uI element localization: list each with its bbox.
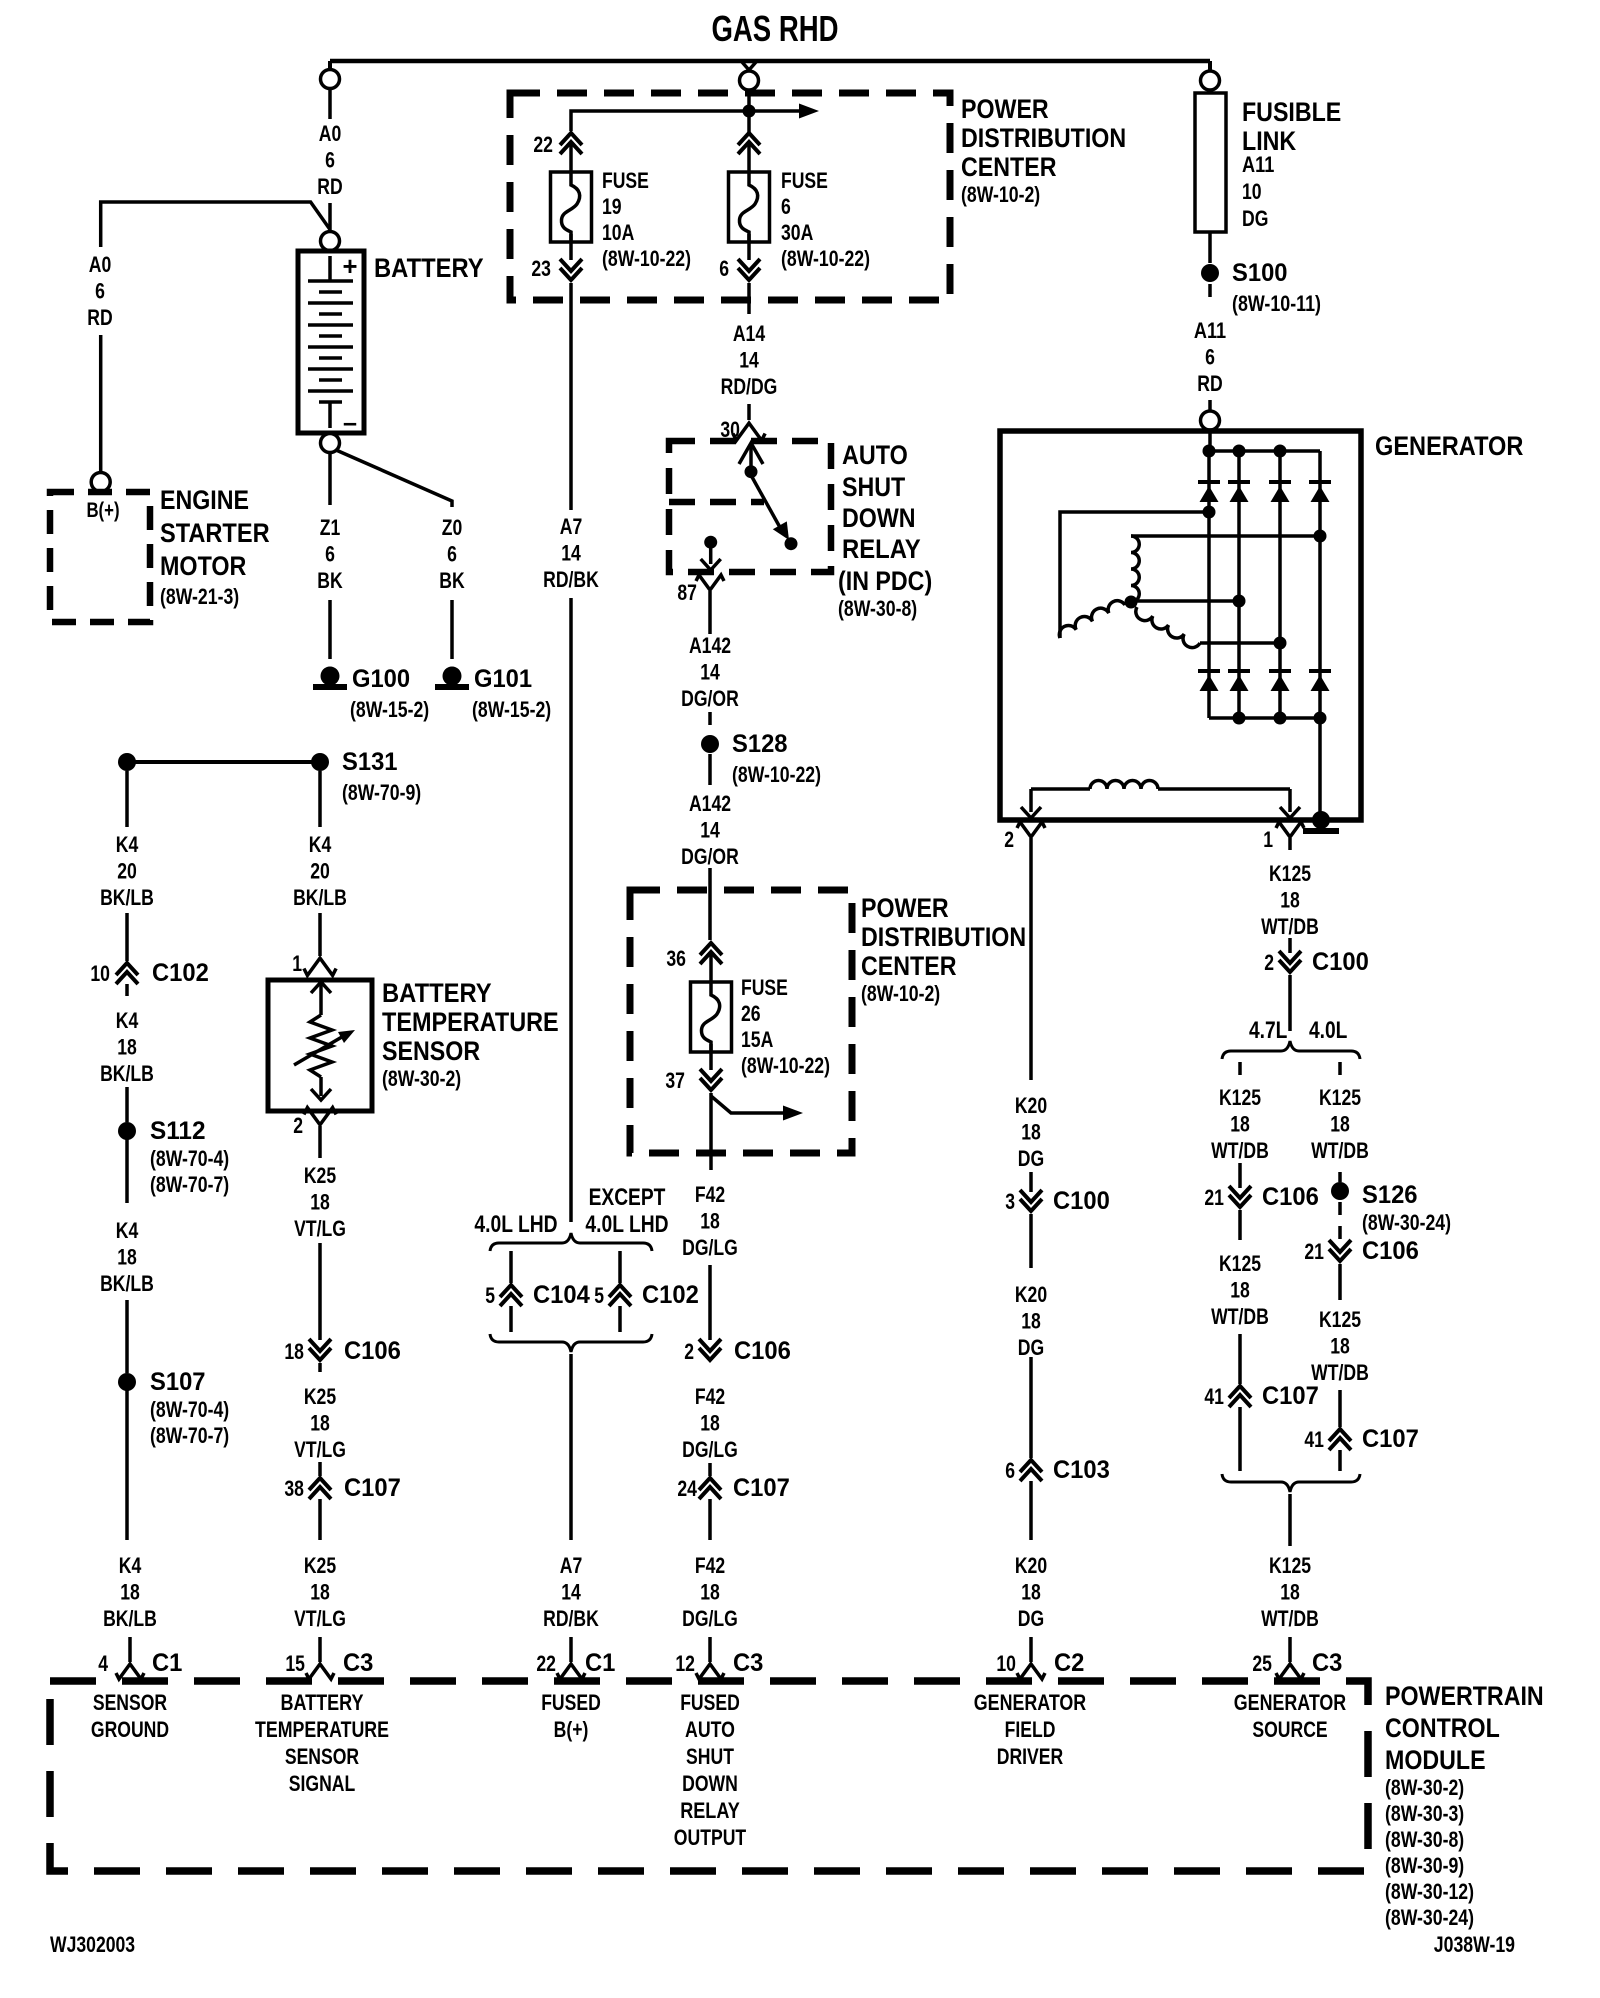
svg-text:BK/LB: BK/LB: [100, 1061, 154, 1086]
svg-text:DG/LG: DG/LG: [682, 1437, 738, 1462]
svg-text:4: 4: [98, 1651, 108, 1676]
svg-text:C106: C106: [344, 1337, 401, 1365]
svg-text:10: 10: [90, 961, 110, 986]
node bottom rail c3: [1274, 712, 1287, 725]
svg-text:C107: C107: [1362, 1425, 1419, 1453]
wire out of fuse 6: [747, 234, 751, 260]
svg-text:ENGINE: ENGINE: [160, 485, 249, 515]
sensor internal arrow bottom: [319, 1077, 323, 1096]
svg-text:18: 18: [1021, 1580, 1041, 1605]
connector pin 22 C1 fork at PCM: [557, 1664, 585, 1679]
svg-text:K125: K125: [1219, 1251, 1261, 1276]
svg-text:10: 10: [1242, 179, 1262, 204]
svg-text:5: 5: [594, 1283, 604, 1308]
node battery positive terminal: [321, 232, 340, 251]
svg-text:WT/DB: WT/DB: [1311, 1138, 1369, 1163]
fuse 19 10A: [551, 172, 592, 242]
wire K20 18 DG from generator pin 2: [1029, 838, 1033, 1080]
svg-text:WT/DB: WT/DB: [1261, 1606, 1319, 1631]
svg-text:S126: S126: [1362, 1181, 1418, 1209]
diode D6 lower: [1228, 669, 1250, 673]
svg-text:K20: K20: [1015, 1282, 1047, 1307]
svg-text:(8W-70-9): (8W-70-9): [342, 780, 421, 805]
svg-text:CONTROL: CONTROL: [1385, 1713, 1500, 1743]
svg-text:C102: C102: [642, 1281, 699, 1309]
svg-text:A0: A0: [89, 252, 112, 277]
svg-text:C1: C1: [152, 1649, 182, 1677]
svg-text:F42: F42: [695, 1384, 725, 1409]
svg-text:23: 23: [531, 256, 551, 281]
svg-text:6: 6: [781, 194, 791, 219]
svg-text:20: 20: [310, 859, 330, 884]
svg-text:21: 21: [1304, 1239, 1324, 1264]
node stator tap c2: [1233, 595, 1246, 608]
svg-text:22: 22: [536, 1651, 556, 1676]
svg-text:15A: 15A: [741, 1027, 773, 1052]
svg-text:CENTER: CENTER: [961, 152, 1057, 182]
connector pin 37 (chevrons down): [709, 1080, 714, 1088]
svg-text:POWERTRAIN: POWERTRAIN: [1385, 1681, 1544, 1711]
wire C102 branch lower: [618, 1306, 622, 1332]
wire feed from bus into PDC: [747, 90, 751, 176]
fuse 26 15A: [691, 982, 732, 1052]
label wire K25 18 VT/LG mid: [318, 1363, 322, 1372]
wire K125 to PCM: [1288, 1494, 1292, 1546]
svg-text:6: 6: [447, 542, 457, 567]
svg-text:BK/LB: BK/LB: [103, 1606, 157, 1631]
connector pin 15 C3 fork at PCM: [306, 1664, 334, 1679]
svg-text:DISTRIBUTION: DISTRIBUTION: [961, 123, 1126, 153]
svg-text:A142: A142: [689, 791, 731, 816]
svg-text:AUTO: AUTO: [685, 1717, 735, 1742]
variable resistor arrow: [294, 1034, 347, 1065]
svg-text:4.0L: 4.0L: [1309, 1017, 1347, 1044]
svg-text:18: 18: [1330, 1334, 1350, 1359]
wire A7 long run: [569, 598, 573, 1222]
wire top power bus: [330, 59, 1210, 64]
svg-text:A14: A14: [733, 321, 766, 346]
ground G101: [443, 667, 462, 686]
svg-text:14: 14: [561, 1580, 581, 1605]
svg-text:A11: A11: [1242, 152, 1274, 177]
svg-text:DOWN: DOWN: [842, 503, 916, 533]
svg-text:SHUT: SHUT: [842, 472, 906, 502]
svg-text:(8W-30-8): (8W-30-8): [838, 596, 917, 621]
brace A7 split: [490, 1233, 652, 1251]
wire stator phase B to c4: [1131, 534, 1320, 538]
svg-text:C103: C103: [1053, 1456, 1110, 1484]
node rectifier junction c2 top: [1233, 445, 1246, 458]
splice S128: [701, 735, 719, 753]
node bottom rail c2: [1233, 712, 1246, 725]
svg-text:EXCEPT: EXCEPT: [589, 1184, 666, 1211]
svg-text:6: 6: [95, 279, 105, 304]
wire dashed out of splice S128: [708, 754, 712, 785]
wire rectifier column 1: [1207, 451, 1211, 718]
wire A0 6 RD battery feed: [328, 89, 332, 119]
svg-text:14: 14: [700, 660, 720, 685]
svg-text:RD/DG: RD/DG: [721, 374, 778, 399]
connector 3 C100 (chevrons down): [1029, 1201, 1034, 1209]
node bus feed terminal at PDC: [740, 71, 759, 90]
wire into battery positive: [328, 203, 332, 231]
svg-text:18: 18: [310, 1580, 330, 1605]
connector 10 C102 (chevrons up): [125, 965, 130, 973]
svg-text:(8W-15-2): (8W-15-2): [350, 697, 429, 722]
svg-text:STARTER: STARTER: [160, 518, 270, 548]
svg-text:S107: S107: [150, 1368, 206, 1396]
svg-text:(8W-10-22): (8W-10-22): [781, 246, 870, 271]
svg-text:SOURCE: SOURCE: [1252, 1717, 1327, 1742]
svg-text:14: 14: [700, 818, 720, 843]
svg-text:K4: K4: [309, 832, 332, 857]
svg-text:18: 18: [700, 1411, 720, 1436]
svg-text:FUSE: FUSE: [602, 168, 649, 193]
wire branch to fuse 19: [571, 111, 743, 131]
svg-text:FUSED: FUSED: [680, 1690, 740, 1715]
wire arrow feed continues right: [755, 109, 805, 113]
svg-text:(8W-10-22): (8W-10-22): [602, 246, 691, 271]
svg-text:C104: C104: [533, 1281, 590, 1309]
svg-text:WT/DB: WT/DB: [1261, 914, 1319, 939]
wire A7 out of PDC: [569, 283, 573, 510]
svg-text:GAS RHD: GAS RHD: [712, 8, 839, 49]
svg-text:OUTPUT: OUTPUT: [674, 1825, 747, 1850]
svg-text:MOTOR: MOTOR: [160, 551, 246, 581]
svg-text:BK/LB: BK/LB: [100, 1271, 154, 1296]
diode D2 upper: [1228, 480, 1250, 484]
svg-text:FIELD: FIELD: [1005, 1717, 1056, 1742]
svg-text:DG/OR: DG/OR: [681, 844, 739, 869]
wire rectifier column 2: [1237, 451, 1241, 718]
connector pin 23 fuse 19 (chevrons down): [569, 270, 574, 278]
relay switch blade: [752, 477, 782, 531]
connector 18 C106 (chevrons down): [318, 1350, 323, 1358]
wire rectifier column 3: [1278, 451, 1282, 718]
wire branch to engine starter motor: [101, 202, 330, 247]
svg-text:BATTERY: BATTERY: [374, 253, 484, 283]
svg-text:18: 18: [1021, 1309, 1041, 1334]
node relay common: [745, 465, 758, 478]
svg-text:Z0: Z0: [442, 515, 463, 540]
svg-text:18: 18: [700, 1209, 720, 1234]
wire A14 14 RD/DG: [747, 283, 751, 314]
svg-text:GENERATOR: GENERATOR: [974, 1690, 1086, 1715]
svg-text:C3: C3: [1312, 1649, 1342, 1677]
svg-text:20: 20: [117, 859, 137, 884]
svg-text:SENSOR: SENSOR: [285, 1744, 359, 1769]
svg-text:18: 18: [1280, 1580, 1300, 1605]
svg-text:K4: K4: [116, 1218, 139, 1243]
power distribution center lower (dashed box): [630, 890, 852, 1153]
connector 21 C106 4.7L (chevrons down): [1238, 1163, 1242, 1188]
svg-text:4.0L LHD: 4.0L LHD: [474, 1211, 557, 1238]
svg-text:(8W-30-24): (8W-30-24): [1362, 1210, 1451, 1235]
svg-text:Z1: Z1: [320, 515, 341, 540]
node relay pin 87 contact: [704, 536, 717, 549]
svg-text:+: +: [343, 251, 358, 281]
svg-text:6: 6: [1205, 345, 1215, 370]
svg-text:36: 36: [666, 946, 686, 971]
node battery negative terminal: [321, 434, 340, 453]
connector pin 6 fuse 6 (chevrons down): [747, 270, 752, 278]
svg-text:B(+): B(+): [86, 499, 119, 522]
svg-text:14: 14: [739, 348, 759, 373]
wire K4 20 BK/LB left: [125, 771, 129, 827]
svg-text:RD: RD: [87, 305, 112, 330]
svg-text:FUSE: FUSE: [781, 168, 828, 193]
svg-text:(8W-15-2): (8W-15-2): [472, 697, 551, 722]
stator winding phase A coil: [1059, 601, 1125, 638]
svg-text:WT/DB: WT/DB: [1211, 1138, 1269, 1163]
svg-text:(8W-70-4): (8W-70-4): [150, 1397, 229, 1422]
wire stator phase A to c1: [1060, 512, 1209, 638]
svg-text:GROUND: GROUND: [91, 1717, 169, 1742]
svg-text:(8W-30-12): (8W-30-12): [1385, 1879, 1474, 1904]
svg-text:19: 19: [602, 194, 622, 219]
svg-text:C3: C3: [733, 1649, 763, 1677]
svg-text:RD: RD: [1197, 371, 1222, 396]
svg-text:K125: K125: [1319, 1085, 1361, 1110]
diode D7 lower: [1269, 669, 1291, 673]
svg-text:A0: A0: [319, 121, 342, 146]
connector pin 25 C3 fork at PCM: [1276, 1664, 1304, 1679]
svg-text:K4: K4: [119, 1553, 142, 1578]
wire K4 18 BK/LB to PCM: [125, 1390, 129, 1540]
svg-text:DG: DG: [1242, 206, 1268, 231]
svg-text:(8W-10-2): (8W-10-2): [861, 981, 940, 1006]
svg-text:5: 5: [485, 1283, 495, 1308]
svg-text:87: 87: [677, 580, 697, 605]
svg-text:J038W-19: J038W-19: [1434, 1932, 1515, 1957]
generator field winding: [1031, 787, 1090, 791]
brace engine join: [1222, 1474, 1360, 1492]
node bus right terminal at fusible link: [1208, 61, 1212, 71]
diode D5 lower: [1198, 669, 1220, 673]
svg-text:24: 24: [677, 1476, 697, 1501]
svg-text:DRIVER: DRIVER: [997, 1744, 1064, 1769]
svg-text:26: 26: [741, 1001, 761, 1026]
svg-text:K25: K25: [304, 1163, 336, 1188]
wire splice S131 tie: [127, 760, 320, 764]
svg-text:TEMPERATURE: TEMPERATURE: [382, 1007, 559, 1037]
wire rectifier column 4: [1318, 451, 1322, 820]
wire K125 18 WT/DB from generator pin 1: [1288, 838, 1292, 850]
svg-text:A142: A142: [689, 633, 731, 658]
svg-text:VT/LG: VT/LG: [294, 1216, 346, 1241]
svg-text:(8W-10-2): (8W-10-2): [961, 182, 1040, 207]
svg-text:C100: C100: [1312, 948, 1369, 976]
svg-text:DG/OR: DG/OR: [681, 686, 739, 711]
connector pin 22 fuse 19 (chevrons up): [569, 135, 574, 143]
svg-text:DG/LG: DG/LG: [682, 1606, 738, 1631]
svg-text:S131: S131: [342, 748, 398, 776]
svg-text:G100: G100: [352, 665, 410, 693]
node junction in PDC: [743, 105, 756, 118]
svg-text:B(+): B(+): [554, 1717, 589, 1742]
wire C102 branch: [618, 1251, 622, 1283]
connector 5 C104 (chevrons up): [509, 1287, 514, 1295]
svg-text:VT/LG: VT/LG: [294, 1606, 346, 1631]
svg-text:BATTERY: BATTERY: [382, 978, 492, 1008]
label wire K125 18 WT/DB 4.7L lower: [1238, 1210, 1242, 1240]
wire stator centre to c2: [1131, 599, 1239, 603]
ground generator case: [1312, 811, 1330, 829]
svg-text:C107: C107: [733, 1474, 790, 1502]
svg-text:(8W-70-7): (8W-70-7): [150, 1423, 229, 1448]
svg-text:4.7L: 4.7L: [1249, 1017, 1287, 1044]
connector 41 C107 4.0L (chevrons up): [1338, 1390, 1342, 1427]
svg-text:WT/DB: WT/DB: [1211, 1304, 1269, 1329]
node bottom rail c4: [1314, 712, 1327, 725]
svg-text:(8W-30-2): (8W-30-2): [1385, 1775, 1464, 1800]
relay pin 87 arrow to box edge: [709, 546, 713, 564]
wire dashed below S100: [1208, 284, 1212, 302]
node stator tap c4: [1314, 530, 1327, 543]
svg-text:SENSOR: SENSOR: [382, 1036, 480, 1066]
svg-text:A11: A11: [1194, 318, 1226, 343]
wire dashed below S126: [1338, 1202, 1342, 1242]
svg-text:K125: K125: [1319, 1307, 1361, 1332]
svg-text:41: 41: [1304, 1427, 1324, 1452]
svg-text:10A: 10A: [602, 220, 634, 245]
connector pin 2 fork below sensor: [304, 1108, 336, 1125]
svg-text:15: 15: [285, 1651, 305, 1676]
svg-text:30A: 30A: [781, 220, 813, 245]
svg-text:FUSED: FUSED: [541, 1690, 601, 1715]
svg-text:TEMPERATURE: TEMPERATURE: [255, 1717, 389, 1742]
svg-text:(8W-30-2): (8W-30-2): [382, 1066, 461, 1091]
wire generator internal top rail: [1208, 431, 1212, 451]
svg-text:K25: K25: [304, 1553, 336, 1578]
svg-text:S100: S100: [1232, 259, 1288, 287]
svg-text:K125: K125: [1269, 1553, 1311, 1578]
connector 5 C102 (chevrons up): [618, 1287, 623, 1295]
svg-text:C106: C106: [734, 1337, 791, 1365]
connector pin 12 C3 fork at PCM: [696, 1664, 724, 1679]
svg-text:6: 6: [1005, 1458, 1015, 1483]
svg-text:RELAY: RELAY: [680, 1798, 740, 1823]
svg-text:3: 3: [1005, 1189, 1015, 1214]
sensor internal arrow top: [311, 982, 331, 993]
svg-text:6: 6: [719, 256, 729, 281]
wire arrow branch inside PDC: [711, 1096, 783, 1113]
svg-text:(8W-30-8): (8W-30-8): [1385, 1827, 1464, 1852]
svg-text:K125: K125: [1219, 1085, 1261, 1110]
svg-text:K20: K20: [1015, 1093, 1047, 1118]
svg-text:DG: DG: [1018, 1335, 1044, 1360]
svg-text:18: 18: [284, 1339, 304, 1364]
svg-text:18: 18: [310, 1190, 330, 1215]
svg-text:DG: DG: [1018, 1146, 1044, 1171]
svg-text:K4: K4: [116, 832, 139, 857]
svg-text:C107: C107: [1262, 1382, 1319, 1410]
svg-text:(IN PDC): (IN PDC): [838, 566, 932, 596]
node splice S131 left leg: [118, 753, 136, 771]
connector pin 87 fork below relay: [696, 575, 724, 590]
svg-text:41: 41: [1204, 1384, 1224, 1409]
svg-text:22: 22: [533, 132, 553, 157]
wire 4.0L branch to join brace: [1338, 1450, 1342, 1471]
power distribution center (dashed box top): [510, 93, 950, 300]
wire K4 20 BK/LB right: [318, 771, 322, 827]
svg-text:CENTER: CENTER: [861, 951, 957, 981]
diode D1 upper: [1198, 480, 1220, 484]
svg-text:18: 18: [117, 1245, 137, 1270]
connector 21 C106 4.0L (chevrons down): [1338, 1251, 1343, 1259]
fuse 6 30A: [729, 172, 770, 242]
ground G100: [321, 667, 340, 686]
wire down to starter B+: [99, 335, 103, 472]
svg-text:4.0L LHD: 4.0L LHD: [585, 1211, 668, 1238]
powertrain control module (dashed box): [50, 1681, 1368, 1871]
svg-text:(8W-30-9): (8W-30-9): [1385, 1853, 1464, 1878]
svg-text:1: 1: [292, 951, 302, 976]
wire into generator: [1208, 400, 1212, 411]
svg-text:BK/LB: BK/LB: [293, 885, 347, 910]
wire field right leg to pin 1: [1288, 789, 1292, 812]
svg-text:37: 37: [665, 1068, 685, 1093]
svg-text:18: 18: [700, 1580, 720, 1605]
stator winding phase B coil (vertical): [1131, 536, 1139, 602]
svg-text:18: 18: [1230, 1112, 1250, 1137]
wire A7 to PCM: [569, 1354, 573, 1540]
svg-text:RD/BK: RD/BK: [543, 567, 599, 592]
connector pin 36 (chevrons up): [709, 945, 714, 953]
svg-text:(8W-10-22): (8W-10-22): [732, 762, 821, 787]
svg-text:DOWN: DOWN: [682, 1771, 738, 1796]
svg-text:18: 18: [117, 1035, 137, 1060]
splice S100: [1201, 264, 1219, 282]
svg-text:21: 21: [1204, 1185, 1224, 1210]
svg-text:G101: G101: [474, 665, 532, 693]
svg-text:K20: K20: [1015, 1553, 1047, 1578]
node rectifier junction c3 top: [1274, 445, 1287, 458]
wire into fuse 19: [569, 145, 573, 180]
svg-text:WJ302003: WJ302003: [50, 1932, 135, 1957]
wire into fuse 26: [709, 955, 713, 990]
svg-text:18: 18: [310, 1411, 330, 1436]
relay pin 30 arrow into box: [739, 443, 763, 464]
svg-text:C3: C3: [343, 1649, 373, 1677]
svg-text:S112: S112: [150, 1117, 206, 1145]
svg-text:14: 14: [561, 541, 581, 566]
svg-text:AUTO: AUTO: [842, 440, 908, 470]
connector pin 1 fork at sensor: [304, 958, 336, 975]
svg-text:(8W-30-3): (8W-30-3): [1385, 1801, 1464, 1826]
brace engine split: [1222, 1041, 1360, 1059]
svg-text:C107: C107: [344, 1474, 401, 1502]
connector pin 1 fork below generator: [1276, 822, 1304, 837]
svg-text:18: 18: [1021, 1120, 1041, 1145]
label wire K4 18 BK/LB: [125, 984, 129, 996]
svg-text:K25: K25: [304, 1384, 336, 1409]
splice S131: [311, 753, 329, 771]
stator winding phase C coil: [1136, 607, 1200, 648]
wire F42 out of PDC: [709, 1093, 713, 1170]
svg-text:BK: BK: [439, 568, 464, 593]
node generator B+ terminal: [1201, 411, 1220, 430]
battery temperature sensor (box): [268, 980, 372, 1111]
svg-text:38: 38: [284, 1476, 304, 1501]
svg-text:POWER: POWER: [861, 893, 949, 923]
svg-text:K125: K125: [1269, 861, 1311, 886]
svg-text:S128: S128: [732, 730, 788, 758]
connector 24 C107 (chevrons up): [708, 1463, 712, 1476]
svg-text:10: 10: [996, 1651, 1016, 1676]
svg-text:1: 1: [1263, 827, 1273, 852]
svg-text:FUSE: FUSE: [741, 975, 788, 1000]
